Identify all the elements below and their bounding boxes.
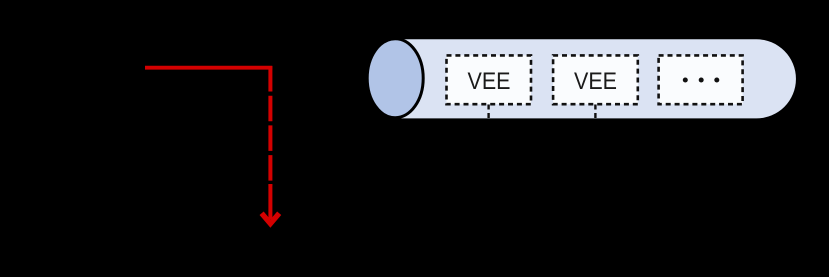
svg-text:VEE: VEE	[468, 68, 511, 95]
svg-text:VEE: VEE	[574, 68, 617, 95]
